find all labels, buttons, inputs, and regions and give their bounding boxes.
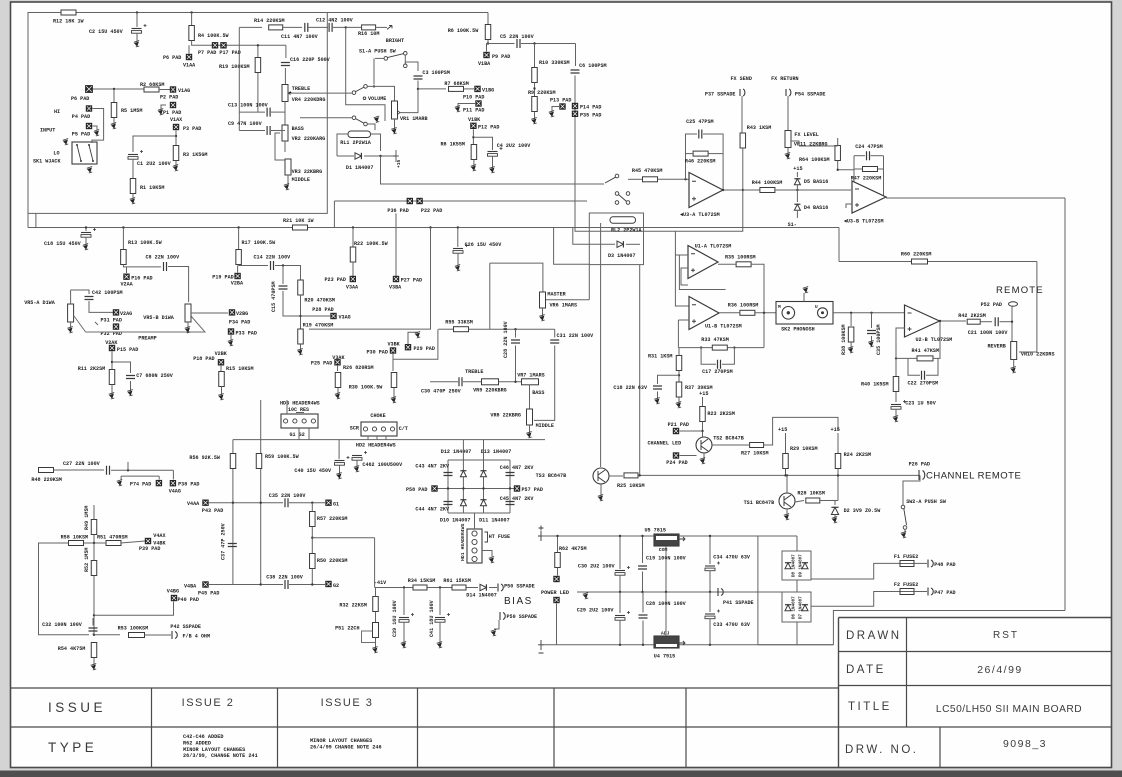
wire C32 bottom [92,634,94,635]
junction [472,136,474,138]
wire bus down to R60 [838,228,840,262]
svg-text:R31 1KSM: R31 1KSM [648,354,672,360]
wire stub up [127,462,129,470]
wire C4 to ground [492,156,494,168]
wire F1 to P48 [914,562,927,564]
switch S1-A contact c [404,64,408,68]
resistor R22 [350,247,356,262]
ground at jack left [64,140,68,144]
wire VR11 wiper [791,141,799,146]
svg-text:26/4/99 CHANGE NOTE 246: 26/4/99 CHANGE NOTE 246 [310,744,382,750]
resistor R20 [298,280,304,295]
junction [136,11,138,13]
pad P39 [145,538,151,544]
svg-text:D6 1N4007: D6 1N4007 [793,596,797,619]
svg-text:U2-B TL072SM: U2-B TL072SM [916,337,953,343]
wire R40 to C23 [895,392,897,403]
wire C3 to VR1 wiper [400,81,418,113]
potentiometer VR9 [482,379,499,385]
capacitor C23 [891,404,901,406]
capacitor C44 [444,502,453,505]
wire +15 to D5 [796,172,798,177]
wire VR8 ground [529,425,531,433]
wire RL2 to R25 node [639,265,641,476]
svg-text:R57 220KSM: R57 220KSM [317,516,348,522]
wire HT to R6 [487,13,489,26]
wire to R10 [534,44,536,68]
wire FX long vertical [1064,198,1066,611]
junction [641,591,643,593]
svg-text:C22 270PSM: C22 270PSM [908,381,939,387]
capacitor C16 [281,63,290,66]
wire R53 to P42 [145,634,172,636]
wire bridge feed G1 leg [462,440,464,460]
svg-text:R62 ADDED: R62 ADDED [183,740,211,746]
wire 0V mid rail [577,591,782,593]
wire D4 down [796,211,798,218]
pad P3 [173,124,179,130]
title block left border [838,618,840,768]
resistor R12 [61,10,76,15]
wire RL1 left [337,134,348,156]
issue/type row divider [11,726,839,728]
diode D8 [785,563,791,569]
svg-text:C30 470P 250V: C30 470P 250V [421,389,462,395]
wire tone feed down [238,27,240,112]
wire R9 to ground [534,112,536,120]
pad P25 [335,360,341,366]
wire +15 to R29 [785,433,787,453]
svg-text:C18 15U 450V: C18 15U 450V [44,241,82,247]
op-amp U3-A [689,173,723,208]
wire hook P5 [93,126,98,130]
svg-text:R40 1K5SM: R40 1K5SM [861,382,889,388]
svg-text:+15: +15 [831,427,840,433]
wire C31 to middle wiper [534,346,555,421]
relay contact d [615,201,619,205]
svg-text:C13 100N 100V: C13 100N 100V [228,103,269,109]
svg-text:R46 220KSM: R46 220KSM [685,159,716,165]
capacitor C30 [459,377,462,386]
capacitor C2 [132,28,142,30]
svg-text:VOLUME: VOLUME [368,96,386,102]
wire R49 top [93,505,95,520]
wire C11 to C12 [308,26,328,28]
svg-text:P57 PAD: P57 PAD [522,487,543,493]
svg-text:P27 PAD: P27 PAD [401,278,422,284]
svg-text:P36 PAD: P36 PAD [387,208,408,214]
wire to R32 [375,588,377,597]
resistor R57 [310,512,316,527]
wire to C19 [642,536,644,563]
capacitor C7 [126,376,135,379]
svg-text:G1: G1 [333,502,339,508]
ground below C462 [355,467,359,471]
junction [111,361,113,363]
svg-text:TREBLE: TREBLE [465,369,483,375]
wire to C41 [439,588,441,616]
svg-text:C5 22N 100V: C5 22N 100V [500,34,535,40]
svg-text:MIDDLE: MIDDLE [292,177,310,183]
wire into U1-B inv [678,319,689,321]
svg-text:R55 33KSM: R55 33KSM [445,320,473,326]
svg-text:D12 1N4007: D12 1N4007 [441,449,472,455]
spade P41 [718,588,723,596]
svg-text:C40 15U 450V: C40 15U 450V [294,468,332,474]
regulator U4 7915 [654,636,679,648]
svg-text:P12 PAD: P12 PAD [478,125,499,131]
spade P50 [498,584,503,592]
wire R49 down [93,535,95,544]
svg-text:R32 22KSM: R32 22KSM [339,603,367,609]
resistor R33 [712,345,727,350]
relay contact b [615,192,619,196]
svg-text:+15: +15 [793,166,802,172]
wire HD3 down a [298,428,300,440]
wire node to C1 [133,136,176,152]
ground below VR5-A [68,328,72,332]
wire VR6 ground [542,308,544,316]
wire P37 to R43 [741,96,743,133]
pad P18 [218,360,224,366]
pad power LED anode [554,576,560,582]
wire R58 to R51 [84,542,107,544]
junction [282,264,284,266]
wire to R62 [557,536,559,552]
potentiometer VR4 treble [282,85,288,102]
svg-text:C34 470U 63V: C34 470U 63V [713,555,751,561]
svg-text:+15: +15 [699,391,708,397]
wire feedback loop left [39,543,90,635]
wire C30 to VR9 [463,381,481,383]
svg-text:HD2 HEADER4WS: HD2 HEADER4WS [356,443,396,449]
svg-text:R16 10M: R16 10M [358,31,379,37]
resistor R1 [130,179,136,194]
wire R50 down [311,569,313,585]
resistor R41 [917,356,933,361]
wire C15 down [283,291,301,316]
svg-text:C15 470PSM: C15 470PSM [271,281,277,312]
svg-text:C/T: C/T [399,426,408,432]
wire R44 to U3-B [775,189,851,191]
svg-text:VR7 1MARS: VR7 1MARS [517,373,545,379]
resistor R27 [750,443,764,448]
header HD1 [467,529,482,563]
wire to D3 [595,243,615,245]
svg-text:R34 15KSM: R34 15KSM [408,578,436,584]
svg-text:BRIGHT: BRIGHT [386,38,404,44]
svg-text:P30 PAD: P30 PAD [367,350,388,356]
capacitor C40 [335,460,345,462]
spade P52 [1009,302,1018,306]
svg-text:BASS: BASS [532,390,544,396]
svg-text:C4 2U2 100V: C4 2U2 100V [497,143,532,149]
svg-text:MIDDLE: MIDDLE [536,423,554,429]
wire to C35 [871,313,873,328]
svg-text:C42 100PSM: C42 100PSM [92,290,123,296]
capacitor C31 [550,340,559,343]
wire bridge to F2 [811,592,900,607]
wire to C30 [430,381,458,383]
junction [619,644,621,646]
HD3 resistor mark [296,412,304,414]
svg-text:C3 100PSM: C3 100PSM [422,70,450,76]
svg-text:V1AA: V1AA [183,63,196,69]
junction [556,535,558,537]
wire R14 to C11 [283,26,302,28]
wire to P16 [126,267,128,274]
resistor R49 [91,520,97,535]
wire bridge leg D13 D11 [483,460,485,513]
svg-text:VR8 22KBRG: VR8 22KBRG [490,413,521,419]
svg-text:P43 PAD: P43 PAD [202,508,223,514]
wire C35 ground [871,336,873,342]
junction [837,474,839,476]
wire HD3 pin3 [286,400,288,414]
resistor R23 [700,407,706,422]
wire R41 to out [933,321,940,358]
switch S1-A lever [387,54,404,58]
resistor R62 [555,553,561,568]
junction [709,591,711,593]
svg-text:V4AA: V4AA [187,501,200,507]
resistor R54 [91,643,97,658]
capacitor C45 [506,502,515,505]
wire R45 to U3-A [658,178,690,180]
svg-text:V3BK: V3BK [388,342,401,348]
svg-text:D8 1N4007: D8 1N4007 [793,554,797,577]
wire RL1 right [371,134,381,151]
svg-text:VR4 220KDRG: VR4 220KDRG [292,97,326,103]
relay RL1 [348,131,371,138]
capacitor C29 [615,615,625,617]
svg-text:P21 PAD: P21 PAD [668,422,689,428]
wire P50b hook [494,620,499,629]
junction [127,469,129,471]
svg-text:D5 BAS16: D5 BAS16 [804,179,828,185]
capacitor C33 [705,613,715,615]
svg-text:C30 2U2 100V: C30 2U2 100V [578,564,616,570]
svg-text:C24 47PSM: C24 47PSM [855,144,883,150]
wire TS1 base [795,501,804,503]
svg-text:9098_3: 9098_3 [1003,738,1047,750]
junction [232,502,234,504]
resistor R4 [189,26,195,41]
wire C42 to V2AG [89,301,113,312]
svg-text:P50 SSPADE: P50 SSPADE [504,584,535,590]
wire center driver vertical [260,400,262,585]
ground below VR8 [527,433,531,437]
svg-text:RL1 2P2W1A: RL1 2P2W1A [340,140,372,146]
wire C26 ground [457,253,459,266]
wire +rail extend [758,535,797,537]
svg-text:U: U [815,304,818,310]
wire bridge left leg [447,460,449,513]
wire LED pad down [556,604,558,645]
relay lever 2 [619,195,627,202]
pad V1BG [475,86,481,92]
pad P12 [471,123,477,129]
svg-text:P50 SSPADE: P50 SSPADE [507,614,538,620]
pad P30 [390,348,396,354]
capacitor C43 [444,473,453,476]
wire R6 down [487,40,489,44]
wire R55 to C31 node [469,328,555,330]
potentiometer VR2 bass [282,125,288,141]
svg-text:P18 PAD: P18 PAD [193,356,214,362]
wire R38 ground [850,342,852,348]
wire to C6 [575,44,577,67]
svg-text:R43 1KSM: R43 1KSM [747,125,771,131]
wire box left to bus [27,212,29,228]
wire to C28 [515,329,517,337]
svg-text:TS1 BC847B: TS1 BC847B [744,500,775,506]
wire VR2 to VR3 [284,141,286,152]
wire R2 to V1AG [159,89,170,91]
svg-text:SCR: SCR [350,426,360,432]
svg-text:-41V: -41V [374,580,387,586]
- terminal bottom [538,640,544,653]
svg-text:P51 22CH: P51 22CH [335,626,359,632]
junction [311,583,313,585]
wire C22 left [908,358,920,375]
wire bridge feed G2 leg [483,440,485,460]
pad P74 [156,480,162,486]
switch S1-A contact a [384,57,388,61]
wire P54 to VR11 [787,96,789,130]
wire bus to RL2 coil [554,228,590,265]
wire to TS1 [786,475,788,493]
svg-text:SK2 PHONOSH: SK2 PHONOSH [781,327,815,333]
wire to R38 [850,313,852,326]
ground at P13 [550,112,554,116]
resistor R19 [255,58,261,73]
wire D3 right [626,243,640,245]
junction [260,502,262,504]
svg-text:R8 1K55M: R8 1K55M [441,142,465,148]
relay RL2 [610,217,636,224]
wire C35b to G1 [289,502,325,504]
wire U3-B minus stub [846,204,852,208]
junction [93,634,95,636]
wire to C29 [619,592,621,613]
wire P36 P22 bus [334,200,587,202]
svg-text:P48 PAD: P48 PAD [934,562,955,568]
ground below VR6 [540,316,544,320]
junction [447,487,449,489]
svg-text:+15: +15 [396,159,402,168]
switch SW2-A lever [904,509,907,526]
wire C5 to C6 node [521,43,576,45]
jack SK2 PHONOSH [776,302,833,325]
capacitor C462 [352,455,362,457]
svg-text:R26 820RSM: R26 820RSM [343,365,374,371]
wire master box left [489,263,491,329]
svg-text:C42-C46 ADDED: C42-C46 ADDED [183,734,223,740]
wire R11 ground [111,385,113,395]
potentiometer VR7 [522,379,539,385]
svg-text:P16 PAD: P16 PAD [131,276,152,282]
capacitor C1 [128,154,138,156]
ground below C23 [894,417,898,421]
svg-text:R56 92K.5W: R56 92K.5W [189,455,221,461]
switch volume contact c [352,116,356,120]
capacitor C18 15U [81,232,91,234]
jack SK1 [72,142,97,164]
svg-text:P4 PAD: P4 PAD [72,114,90,120]
wire R46 right [708,153,723,155]
wire down to U1 inputs [675,231,689,306]
wire R22 to P23 [352,262,354,277]
pad power LED cathode [554,597,560,603]
wire R23 to TS2 [702,422,704,438]
wire P52 to VR10 [1011,306,1013,341]
svg-text:P23 PAD: P23 PAD [325,277,346,283]
wire R33 right [728,347,765,349]
wire C3 node to R7 [418,88,446,90]
wire to R19 [257,45,259,57]
ground below R30 [392,398,396,402]
junction [533,87,535,89]
wire R48 to C27 [54,469,105,471]
svg-text:P31 PAD: P31 PAD [101,318,122,324]
wire R19 down [257,73,259,113]
resistor R19 470K [298,329,304,344]
wire R64 down [838,161,854,170]
switch volume contact b [364,85,368,89]
svg-text:D1 1N4007: D1 1N4007 [346,165,374,171]
capacitor C13 [267,108,270,117]
wire P21 to node [680,430,703,432]
wire SW2-A to remote [903,475,920,505]
capacitor C35 (G1) [285,498,288,507]
spade P37 [740,89,745,96]
pad P21 [673,428,679,434]
ground below R8 [471,166,475,170]
wire R15 ground [221,387,223,396]
ground at HD1 [490,558,494,562]
wire R20 to R19b [300,295,302,330]
junction [439,586,441,588]
wire R54 ground [93,658,95,666]
svg-text:C28 22N 100V: C28 22N 100V [503,320,509,358]
wire R26 ground [337,388,339,395]
junction [837,169,839,171]
issue table column divider [685,688,687,768]
fuse F1 [900,561,914,567]
svg-text:◄U3-A TL072SM: ◄U3-A TL072SM [680,212,720,218]
relay contact c [626,192,630,196]
wire master feed [490,263,543,292]
wire C6 to FX send node [575,76,743,232]
resistor R32 [373,597,379,612]
svg-text:R6 100K.5W: R6 100K.5W [448,28,480,34]
wire R28 right [820,500,838,502]
wire VR4 wiper to volume switch [292,92,352,94]
wire C38 to G2 [289,584,325,586]
ground below C2 [135,42,139,46]
wire to P40 [94,602,174,616]
title/drwno divider [839,726,1112,728]
capacitor C4 [488,151,498,153]
svg-text:C43 4N7 2KV: C43 4N7 2KV [415,464,450,470]
P51 wiper loop [362,631,376,643]
wire F2 to P47 [914,591,927,593]
svg-text:C31 22N 100V: C31 22N 100V [557,333,595,339]
svg-text:R45 470KSM: R45 470KSM [632,168,663,174]
svg-text:D10 1N4007: D10 1N4007 [440,518,471,524]
wire P12 down [472,129,474,144]
